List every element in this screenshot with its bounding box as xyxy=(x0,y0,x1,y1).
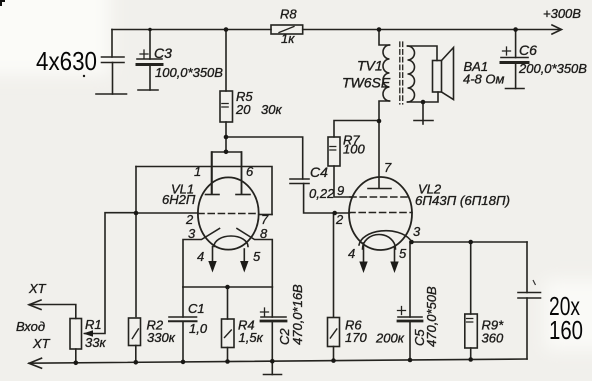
svg-text:ХТ: ХТ xyxy=(28,281,47,296)
svg-text:5: 5 xyxy=(253,249,261,264)
svg-text:C3: C3 xyxy=(154,45,172,61)
svg-text:1: 1 xyxy=(194,164,201,179)
svg-text:9: 9 xyxy=(337,183,344,198)
svg-text:6П43П (6П18П): 6П43П (6П18П) xyxy=(415,193,510,208)
svg-text:6: 6 xyxy=(246,164,254,179)
svg-text:R1: R1 xyxy=(85,317,102,332)
svg-text:R8: R8 xyxy=(280,7,297,22)
svg-text:470,0*16В: 470,0*16В xyxy=(290,284,305,345)
svg-text:+300В: +300В xyxy=(543,6,581,21)
svg-text:3: 3 xyxy=(413,224,421,239)
svg-text:100: 100 xyxy=(343,142,365,157)
svg-text:1,5к: 1,5к xyxy=(239,330,264,345)
svg-text:3: 3 xyxy=(188,226,196,241)
svg-text:4x630: 4x630 xyxy=(36,46,97,76)
svg-text:30к: 30к xyxy=(261,102,282,117)
svg-text:100,0*350В: 100,0*350В xyxy=(155,65,223,80)
svg-text:330к: 330к xyxy=(147,330,176,345)
svg-text:160: 160 xyxy=(549,315,583,345)
svg-text:7: 7 xyxy=(384,160,392,175)
svg-text:5: 5 xyxy=(399,246,407,261)
svg-text:200к: 200к xyxy=(375,331,405,346)
svg-text:0,22: 0,22 xyxy=(309,186,335,201)
svg-text:TV1: TV1 xyxy=(357,58,383,74)
svg-text:33к: 33к xyxy=(85,335,106,350)
svg-text:Вход: Вход xyxy=(16,319,45,334)
svg-text:2: 2 xyxy=(185,212,194,227)
svg-text:6Н2П: 6Н2П xyxy=(162,192,196,207)
svg-text:4: 4 xyxy=(197,249,204,264)
svg-text:1,0: 1,0 xyxy=(189,321,208,336)
svg-text:470,0*50В: 470,0*50В xyxy=(424,286,439,347)
svg-text:C1: C1 xyxy=(188,301,205,316)
svg-text:4-8 Ом: 4-8 Ом xyxy=(463,72,505,87)
svg-text:200,0*350В: 200,0*350В xyxy=(518,61,587,76)
svg-text:8: 8 xyxy=(260,226,268,241)
svg-text:4: 4 xyxy=(348,246,355,261)
svg-text:C6: C6 xyxy=(519,42,537,58)
svg-text:2: 2 xyxy=(335,212,344,227)
svg-text:20: 20 xyxy=(235,102,251,117)
svg-text:1к: 1к xyxy=(281,31,295,46)
svg-text:7: 7 xyxy=(261,212,269,227)
svg-text:TW6SE: TW6SE xyxy=(342,75,391,91)
svg-text:ХТ: ХТ xyxy=(32,336,51,351)
svg-text:C4: C4 xyxy=(310,164,328,180)
svg-text:170: 170 xyxy=(345,330,367,345)
svg-text:360: 360 xyxy=(482,331,504,346)
